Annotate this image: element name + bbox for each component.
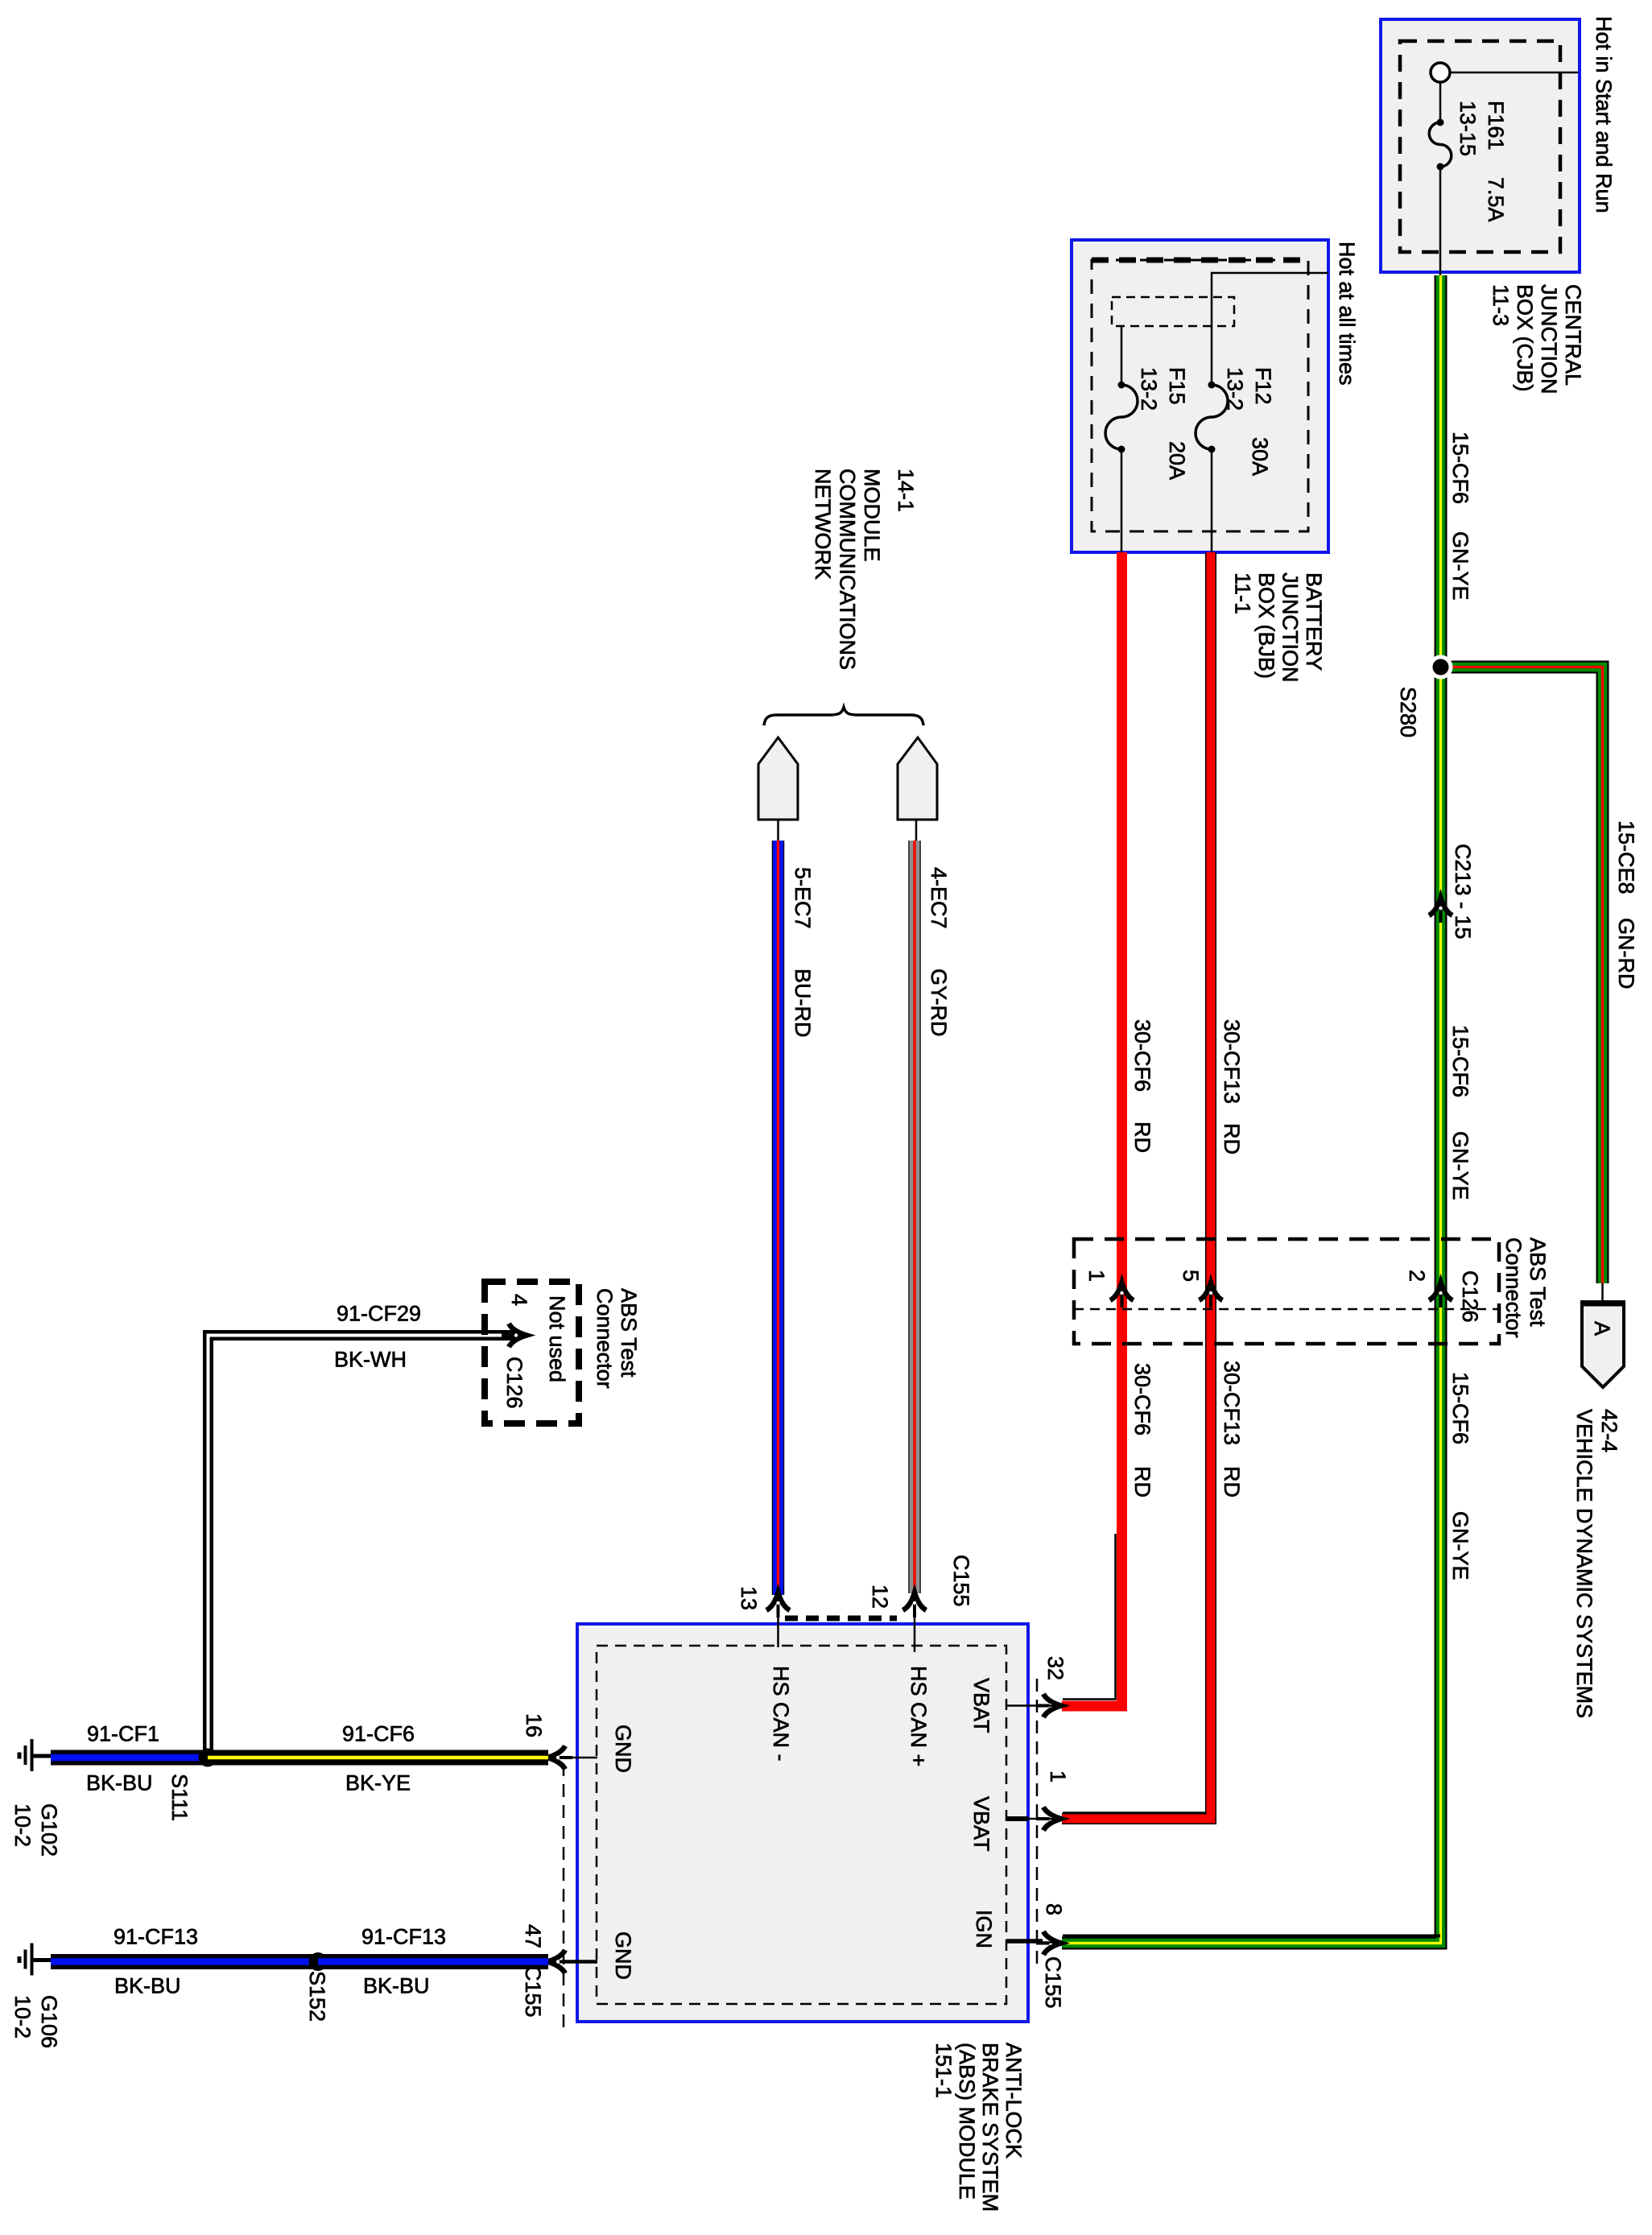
wire 30-CF13 RD (BJB to ABS pin 1) bbox=[1062, 552, 1211, 1819]
connector C213-15 arrow bbox=[1429, 898, 1452, 923]
svg-text:F161: F161 bbox=[1484, 101, 1508, 151]
terminal circle in CJB bbox=[1431, 63, 1450, 82]
C126 pin 1 arrow bbox=[1110, 1283, 1134, 1308]
connector C155 dashed line right bbox=[1036, 1679, 1039, 1969]
svg-text:30-CF13: 30-CF13 bbox=[1220, 1361, 1244, 1445]
svg-text:12: 12 bbox=[868, 1584, 892, 1609]
svg-text:10-2: 10-2 bbox=[10, 1995, 35, 2039]
svg-text:RD: RD bbox=[1220, 1466, 1244, 1498]
anti-lock brake system (ABS) module outline bbox=[577, 1624, 1028, 2022]
svg-text:30-CF13: 30-CF13 bbox=[1220, 1019, 1244, 1104]
label 30-CF13 (lower) bbox=[1220, 1361, 1244, 1445]
svg-text:S111: S111 bbox=[167, 1774, 192, 1821]
ABS pin 13 arrow bbox=[766, 1593, 790, 1617]
svg-text:91-CF6: 91-CF6 bbox=[342, 1722, 415, 1746]
label RD (lower left) bbox=[1130, 1466, 1154, 1498]
label 30-CF6 (upper) bbox=[1130, 1019, 1154, 1092]
label HS CAN + bbox=[907, 1666, 931, 1766]
label ANTI-LOCK BRAKE SYSTEM (ABS) MODULE 151-1 bbox=[931, 2043, 1026, 2212]
splice S152 bbox=[309, 1952, 328, 1971]
wire 15-CF6 GN-YE main run (CJB to ABS pin 8) bbox=[1062, 275, 1441, 1944]
label IGN bbox=[972, 1910, 996, 1948]
label 91-CF1 bbox=[87, 1722, 159, 1746]
label GN-YE (middle) bbox=[1448, 1131, 1472, 1200]
wire fuse F161 to CJB edge bbox=[1439, 167, 1442, 275]
svg-text:GN-YE: GN-YE bbox=[1448, 531, 1472, 601]
svg-text:13-2: 13-2 bbox=[1137, 367, 1161, 411]
label Hot at all times bbox=[1335, 242, 1359, 386]
svg-text:7.5A: 7.5A bbox=[1484, 177, 1508, 222]
splice S280 bbox=[1431, 657, 1451, 677]
svg-text:32: 32 bbox=[1043, 1656, 1068, 1680]
label VBAT (pin 32) bbox=[969, 1678, 993, 1733]
label C126 (not used) bbox=[502, 1357, 527, 1409]
svg-text:S152: S152 bbox=[305, 1971, 329, 2022]
wire hot feed inside CJB bbox=[1450, 72, 1578, 74]
label 14-1 bbox=[894, 469, 918, 512]
svg-text:BK-BU: BK-BU bbox=[86, 1771, 153, 1795]
lead line ABS pin 16 bbox=[564, 1757, 597, 1759]
label 30-CF13 (upper) bbox=[1220, 1019, 1244, 1104]
svg-text:ANTI-LOCK: ANTI-LOCK bbox=[1002, 2043, 1026, 2159]
svg-text:4-EC7: 4-EC7 bbox=[927, 867, 951, 929]
label BK-WH bbox=[334, 1348, 407, 1372]
svg-text:GND: GND bbox=[611, 1725, 635, 1773]
label C126 bbox=[1458, 1270, 1482, 1323]
label C155 (top) bbox=[949, 1555, 973, 1607]
svg-text:ABS Test: ABS Test bbox=[1526, 1237, 1550, 1327]
svg-text:Connector: Connector bbox=[593, 1288, 617, 1389]
label 30-CF6 (lower) bbox=[1130, 1363, 1154, 1436]
svg-text:11-1: 11-1 bbox=[1231, 572, 1255, 614]
label 15-CF6 (upper) bbox=[1448, 432, 1472, 504]
label 4-EC7 bbox=[927, 867, 951, 929]
label RD (upper left) bbox=[1130, 1122, 1154, 1153]
svg-text:BK-BU: BK-BU bbox=[114, 1974, 181, 1998]
label G102 10-2 bbox=[10, 1803, 61, 1857]
C126 pin 5 arrow bbox=[1200, 1283, 1223, 1308]
label S111 bbox=[167, 1774, 192, 1821]
svg-text:COMMUNICATIONS: COMMUNICATIONS bbox=[836, 469, 860, 670]
svg-text:HS CAN +: HS CAN + bbox=[907, 1666, 931, 1766]
svg-text:GND: GND bbox=[611, 1931, 635, 1980]
label F15 13-2 bbox=[1137, 367, 1189, 411]
label 32 bbox=[1043, 1656, 1068, 1680]
label 91-CF13 (left) bbox=[114, 1925, 198, 1949]
label 16 (pin) bbox=[522, 1713, 546, 1737]
svg-text:RD: RD bbox=[1220, 1123, 1244, 1155]
label 15-CF6 (middle) bbox=[1448, 1025, 1472, 1097]
label 91-CF29 bbox=[337, 1302, 421, 1326]
ABS pin 1 arrow bbox=[1036, 1807, 1061, 1831]
svg-text:VBAT: VBAT bbox=[969, 1796, 993, 1852]
svg-text:CENTRAL: CENTRAL bbox=[1561, 284, 1585, 386]
svg-text:30-CF6: 30-CF6 bbox=[1130, 1019, 1154, 1092]
svg-text:15-CF6: 15-CF6 bbox=[1448, 1372, 1472, 1444]
label G106 10-2 bbox=[10, 1995, 61, 2048]
svg-text:BOX (CJB): BOX (CJB) bbox=[1513, 284, 1537, 392]
svg-text:47: 47 bbox=[521, 1924, 545, 1948]
wire 5-EC7 BU-RD bbox=[772, 841, 785, 1595]
lead wire right pentagon bbox=[915, 820, 918, 841]
svg-text:151-1: 151-1 bbox=[931, 2043, 956, 2098]
label 8 (pin) bbox=[1042, 1903, 1066, 1915]
label pin 5 bbox=[1179, 1270, 1203, 1282]
label 12 bbox=[868, 1584, 892, 1609]
svg-text:G106: G106 bbox=[37, 1995, 61, 2048]
label GN-YE (upper) bbox=[1448, 531, 1472, 601]
connector C126 dashed box bbox=[1074, 1239, 1499, 1344]
svg-text:S280: S280 bbox=[1396, 687, 1420, 737]
connector C126 mating dashed line bbox=[1074, 1308, 1497, 1311]
off-page connector (HS CAN +) bbox=[898, 737, 937, 820]
svg-text:13-2: 13-2 bbox=[1223, 367, 1247, 411]
label 91-CF6 bbox=[342, 1722, 415, 1746]
label 7.5A bbox=[1484, 177, 1508, 222]
label 1 (pin) bbox=[1046, 1770, 1070, 1783]
label GN-RD bbox=[1614, 918, 1638, 989]
connector C126 not-used dashed box bbox=[485, 1282, 579, 1423]
BJB bus bar dashed box bbox=[1112, 297, 1234, 326]
label GY-RD bbox=[927, 969, 951, 1037]
label F12 13-2 bbox=[1223, 367, 1275, 411]
wire 30-CF6 RD (BJB to ABS pin 32) bbox=[1062, 552, 1122, 1706]
svg-text:Connector: Connector bbox=[1501, 1237, 1526, 1338]
svg-text:Hot in Start and Run: Hot in Start and Run bbox=[1592, 16, 1616, 213]
label 13 bbox=[737, 1586, 761, 1610]
label VBAT (pin 1) bbox=[969, 1796, 993, 1852]
svg-text:MODULE: MODULE bbox=[860, 469, 884, 562]
svg-text:BRAKE SYSTEM: BRAKE SYSTEM bbox=[978, 2043, 1002, 2212]
label BK-BU (right) bbox=[363, 1974, 430, 1998]
wire circle to fuse F161 bbox=[1439, 82, 1442, 122]
svg-text:BK-YE: BK-YE bbox=[345, 1771, 411, 1795]
label 20A bbox=[1165, 441, 1189, 480]
CJB internal dashed box bbox=[1400, 41, 1560, 252]
wire 91-CF13 BK-BU (ground to S152) bbox=[51, 1954, 318, 1969]
wire 91-CF1 BK-BU bbox=[51, 1750, 208, 1766]
ABS module internal dashed box bbox=[597, 1646, 1006, 2004]
svg-text:91-CF29: 91-CF29 bbox=[337, 1302, 421, 1326]
lead pin 12 into module bbox=[914, 1613, 916, 1652]
svg-text:8: 8 bbox=[1042, 1903, 1066, 1915]
BJB internal dashed box bbox=[1092, 260, 1308, 531]
label ABS Test Connector bbox=[1501, 1237, 1550, 1338]
svg-text:15-CF6: 15-CF6 bbox=[1448, 1025, 1472, 1097]
label A bbox=[1590, 1321, 1614, 1336]
svg-text:Not used: Not used bbox=[545, 1295, 569, 1382]
svg-text:(ABS) MODULE: (ABS) MODULE bbox=[955, 2043, 979, 2200]
ABS pin 8 arrow bbox=[1036, 1931, 1061, 1955]
label S152 bbox=[305, 1971, 329, 2022]
label GND (pin 47) bbox=[611, 1931, 635, 1980]
svg-text:BK-WH: BK-WH bbox=[334, 1348, 407, 1372]
wire fuse F12 to BJB edge bbox=[1211, 449, 1213, 552]
label C155 (right) bbox=[1041, 1956, 1065, 2009]
wire fuse F15 to BJB edge bbox=[1121, 449, 1123, 552]
svg-text:16: 16 bbox=[522, 1713, 546, 1737]
svg-text:1: 1 bbox=[1084, 1270, 1109, 1282]
wire 91-CF13 BK-BU (S152 to ABS pin 47) bbox=[318, 1954, 548, 1969]
svg-text:C126: C126 bbox=[502, 1357, 527, 1409]
svg-text:10-2: 10-2 bbox=[10, 1803, 35, 1847]
svg-text:91-CF13: 91-CF13 bbox=[361, 1925, 446, 1949]
lead line ABS pin 1 bbox=[1006, 1816, 1055, 1821]
svg-text:JUNCTION: JUNCTION bbox=[1278, 572, 1303, 683]
svg-text:15-CE8: 15-CE8 bbox=[1614, 820, 1638, 894]
label GND (pin 16) bbox=[611, 1725, 635, 1773]
svg-text:30A: 30A bbox=[1248, 437, 1272, 476]
label pin 2 bbox=[1405, 1270, 1429, 1282]
connector C155 dashed line left bbox=[563, 1763, 565, 2029]
label 5-EC7 bbox=[791, 867, 815, 929]
lead line corner pin 32 bbox=[1063, 1534, 1116, 1700]
ground G106 bbox=[19, 1944, 52, 1976]
lead line ABS pin 47 bbox=[564, 1960, 597, 1964]
ABS pin 32 arrow bbox=[1036, 1694, 1061, 1717]
label 4 (pin) bbox=[507, 1294, 531, 1306]
svg-text:1: 1 bbox=[1046, 1770, 1070, 1783]
svg-text:G102: G102 bbox=[37, 1803, 61, 1857]
battery junction box (BJB) outline bbox=[1072, 240, 1328, 552]
fuse F161 element bbox=[1429, 119, 1452, 171]
brace module communications network bbox=[764, 708, 923, 726]
label BATTERY JUNCTION BOX (BJB) 11-1 bbox=[1231, 572, 1327, 683]
ABS pin 12 arrow bbox=[903, 1593, 927, 1617]
C126 pin 4 arrow bbox=[502, 1324, 527, 1347]
lead pin 13 into module bbox=[777, 1613, 779, 1647]
svg-text:RD: RD bbox=[1130, 1466, 1154, 1498]
svg-text:VEHICLE DYNAMIC SYSTEMS: VEHICLE DYNAMIC SYSTEMS bbox=[1572, 1409, 1596, 1718]
label 47 (pin) bbox=[521, 1924, 545, 1948]
svg-text:11-3: 11-3 bbox=[1489, 284, 1513, 326]
label Hot in Start and Run bbox=[1592, 16, 1616, 213]
svg-text:HS CAN -: HS CAN - bbox=[769, 1666, 793, 1762]
svg-text:GN-YE: GN-YE bbox=[1448, 1131, 1472, 1200]
central junction box (CJB) outline bbox=[1381, 19, 1580, 272]
svg-text:F15: F15 bbox=[1165, 367, 1189, 405]
svg-text:BOX (BJB): BOX (BJB) bbox=[1254, 572, 1278, 679]
splice S111 bbox=[199, 1749, 217, 1767]
label GN-YE (lower) bbox=[1448, 1511, 1472, 1580]
svg-text:C213 - 15: C213 - 15 bbox=[1451, 844, 1475, 940]
svg-text:C155: C155 bbox=[949, 1555, 973, 1607]
label Not used bbox=[545, 1295, 569, 1382]
connector C155 dashed line top bbox=[785, 1616, 897, 1622]
svg-text:Hot at all times: Hot at all times bbox=[1335, 242, 1359, 386]
wire 4-EC7 GY-RD bbox=[908, 841, 921, 1593]
svg-text:F12: F12 bbox=[1251, 367, 1275, 405]
svg-text:NETWORK: NETWORK bbox=[811, 469, 835, 580]
svg-text:91-CF1: 91-CF1 bbox=[87, 1722, 159, 1746]
svg-text:BU-RD: BU-RD bbox=[791, 969, 815, 1038]
fuse F15 element bbox=[1105, 382, 1138, 453]
svg-text:14-1: 14-1 bbox=[894, 469, 918, 512]
svg-text:4: 4 bbox=[507, 1294, 531, 1306]
svg-text:A: A bbox=[1590, 1321, 1614, 1336]
lead line corner pin 1 bbox=[1063, 1812, 1208, 1814]
lead wire left pentagon bbox=[777, 820, 779, 841]
label HS CAN - bbox=[769, 1666, 793, 1762]
wire hot feed inside BJB bbox=[1212, 273, 1328, 385]
svg-text:42-4: 42-4 bbox=[1597, 1409, 1621, 1452]
svg-text:RD: RD bbox=[1130, 1122, 1154, 1153]
svg-text:BATTERY: BATTERY bbox=[1302, 572, 1326, 671]
label C213 - 15 bbox=[1451, 844, 1475, 940]
svg-text:GN-YE: GN-YE bbox=[1448, 1511, 1472, 1580]
lead line ABS pin 8 bbox=[1006, 1941, 1055, 1943]
label ABS Test Connector (not used) bbox=[593, 1288, 641, 1389]
wire 15-CE8 GN-RD branch (S280 to connector A) bbox=[1441, 667, 1603, 1284]
lead line pin 8 top edge bbox=[1063, 1935, 1440, 1938]
svg-text:5: 5 bbox=[1179, 1270, 1203, 1282]
svg-text:13-15: 13-15 bbox=[1456, 101, 1480, 156]
svg-text:VBAT: VBAT bbox=[969, 1678, 993, 1733]
svg-text:2: 2 bbox=[1405, 1270, 1429, 1282]
label 15-CF6 (lower) bbox=[1448, 1372, 1472, 1444]
label 15-CE8 bbox=[1614, 820, 1638, 894]
svg-text:C155: C155 bbox=[1041, 1956, 1065, 2009]
off-page connector (HS CAN -) bbox=[758, 737, 798, 820]
label CENTRAL JUNCTION BOX (CJB) 11-3 bbox=[1489, 284, 1585, 395]
svg-text:15-CF6: 15-CF6 bbox=[1448, 432, 1472, 504]
ABS pin 16 arrow bbox=[547, 1746, 572, 1770]
svg-text:C126: C126 bbox=[1458, 1270, 1482, 1323]
label 91-CF13 (right) bbox=[361, 1925, 446, 1949]
ABS pin 47 arrow bbox=[547, 1950, 572, 1973]
svg-text:5-EC7: 5-EC7 bbox=[791, 867, 815, 929]
svg-text:30-CF6: 30-CF6 bbox=[1130, 1363, 1154, 1436]
svg-text:13: 13 bbox=[737, 1586, 761, 1610]
label pin 1 bbox=[1084, 1270, 1109, 1282]
label 30A bbox=[1248, 437, 1272, 476]
label F161 13-15 bbox=[1456, 101, 1508, 156]
wire bus to fuse F15 bbox=[1121, 326, 1123, 385]
label BK-BU (91-CF1) bbox=[86, 1771, 153, 1795]
svg-text:GY-RD: GY-RD bbox=[927, 969, 951, 1037]
label S280 bbox=[1396, 687, 1420, 737]
label RD (lower right) bbox=[1220, 1466, 1244, 1498]
svg-text:IGN: IGN bbox=[972, 1910, 996, 1948]
lead line ABS pin 32 bbox=[1006, 1704, 1055, 1707]
label MODULE COMMUNICATIONS NETWORK bbox=[811, 469, 884, 670]
svg-text:BK-BU: BK-BU bbox=[363, 1974, 430, 1998]
svg-text:91-CF13: 91-CF13 bbox=[114, 1925, 198, 1949]
fuse F12 element bbox=[1196, 382, 1228, 453]
label RD (upper right) bbox=[1220, 1123, 1244, 1155]
lead wire to connector A bbox=[1601, 1283, 1604, 1303]
label 42-4 VEHICLE DYNAMIC SYSTEMS bbox=[1572, 1409, 1621, 1718]
wire 91-CF29 BK-WH bbox=[209, 1336, 521, 1758]
label BK-YE bbox=[345, 1771, 411, 1795]
label BK-BU (left) bbox=[114, 1974, 181, 1998]
label C155 (left) bbox=[521, 1965, 545, 2018]
svg-text:ABS Test: ABS Test bbox=[617, 1288, 641, 1378]
svg-text:GN-RD: GN-RD bbox=[1614, 918, 1638, 989]
C126 pin 2 arrow bbox=[1429, 1283, 1452, 1308]
wire 91-CF6 BK-YE bbox=[208, 1750, 548, 1766]
ground G102 bbox=[19, 1739, 52, 1771]
svg-text:C155: C155 bbox=[521, 1965, 545, 2018]
svg-text:20A: 20A bbox=[1165, 441, 1189, 480]
svg-text:JUNCTION: JUNCTION bbox=[1537, 284, 1561, 395]
label BU-RD bbox=[791, 969, 815, 1038]
off-page connector A bbox=[1580, 1302, 1625, 1387]
